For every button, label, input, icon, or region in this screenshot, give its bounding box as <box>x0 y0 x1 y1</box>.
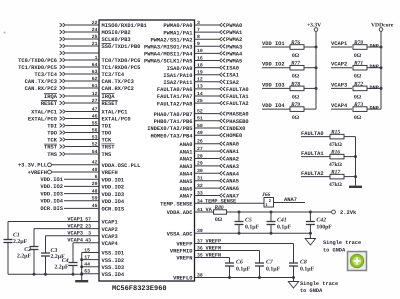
svg-text:FAULTA1: FAULTA1 <box>226 94 249 100</box>
svg-text:ISA0/PA9: ISA0/PA9 <box>167 66 193 72</box>
node ANA7 / pin 33 <box>180 190 239 199</box>
svg-text:TC1/RXD0/PC5: TC1/RXD0/PC5 <box>102 65 141 71</box>
node TC1/RXD0/PC5 / pin 64 <box>18 62 140 71</box>
svg-text:0Ω: 0Ω <box>292 115 300 121</box>
svg-text:2.2µF: 2.2µF <box>13 239 28 245</box>
svg-text:2.2µF: 2.2µF <box>54 264 69 270</box>
wire net TEMP_SENSE / pin 34 <box>160 198 264 207</box>
svg-text:ISA2: ISA2 <box>226 80 239 86</box>
svg-text:14: 14 <box>197 91 203 97</box>
node +VREFH / pin 40 <box>28 167 118 176</box>
svg-text:VDD.IO2: VDD.IO2 <box>40 184 63 190</box>
svg-text:PWMA1/PA1: PWMA1/PA1 <box>163 30 192 36</box>
svg-text:12: 12 <box>197 77 203 83</box>
svg-text:0.1µF: 0.1µF <box>277 224 292 230</box>
wire net VSSA.ADC / pin 39 <box>167 228 312 237</box>
svg-text:36: 36 <box>197 246 203 252</box>
svg-text:VREFN: VREFN <box>206 253 222 259</box>
svg-text:TDI: TDI <box>102 124 112 130</box>
svg-text:EXTAL/PC0: EXTAL/PC0 <box>102 117 131 123</box>
svg-text:CAN.RX/PC2: CAN.RX/PC2 <box>25 86 57 92</box>
node ISA1 / pin 19 <box>163 70 239 79</box>
svg-text:41: 41 <box>197 207 203 213</box>
svg-text:61: 61 <box>92 83 98 89</box>
svg-text:PWMA0: PWMA0 <box>226 23 242 29</box>
svg-text:0Ω: 0Ω <box>354 74 362 80</box>
svg-text:DNP: DNP <box>370 44 379 50</box>
svg-text:R77: R77 <box>290 61 300 67</box>
node TMS / pin 54 <box>47 149 112 158</box>
svg-text:100pF: 100pF <box>316 224 332 230</box>
svg-text:64: 64 <box>92 62 98 68</box>
green marker button <box>348 252 367 271</box>
svg-text:PWMA5/SCLK1/PA5: PWMA5/SCLK1/PA5 <box>144 59 193 65</box>
svg-text:FAULTA1/PA7: FAULTA1/PA7 <box>157 94 193 100</box>
svg-text:ANA6: ANA6 <box>226 186 239 192</box>
svg-text:to GNDA: to GNDA <box>323 248 346 254</box>
node IRQA / pin 12 <box>44 91 115 100</box>
ground GNDA triangle lower <box>288 278 338 295</box>
node INDEX0 / pin 50 <box>147 123 245 132</box>
svg-text:VCAP3: VCAP3 <box>67 231 83 237</box>
svg-text:33: 33 <box>197 190 203 196</box>
svg-text:VREFP: VREFP <box>206 239 222 245</box>
wire net VREFM / pin 36 <box>170 246 260 264</box>
svg-text:TDO: TDO <box>102 131 112 137</box>
svg-text:0Ω: 0Ω <box>292 74 300 80</box>
svg-text:VCAP4: VCAP4 <box>67 238 83 244</box>
node CAN.RX/PC2 / pin 61 <box>25 83 134 92</box>
wire net VCAP1 / pin 57 <box>8 216 118 274</box>
node PWMA1 / pin 7 <box>163 27 242 36</box>
node FAULTA1 / pin 14 <box>157 91 249 100</box>
svg-text:FAULTA2/PA8: FAULTA2/PA8 <box>157 101 193 107</box>
node PHASEA0 / pin 52 <box>154 108 249 117</box>
node PWMA2 / pin 8 <box>150 34 242 43</box>
svg-text:R71: R71 <box>353 61 363 67</box>
svg-text:0Ω: 0Ω <box>354 94 362 100</box>
svg-text:47: 47 <box>92 106 98 112</box>
svg-text:CAN.RX/PC2: CAN.RX/PC2 <box>102 86 134 92</box>
resistor R15 47k <box>329 129 356 148</box>
node FAULTA0 pull <box>301 131 330 137</box>
node ANA7 stub <box>274 197 306 203</box>
node VCAP3 <box>331 82 352 88</box>
svg-text:VSS.IO3: VSS.IO3 <box>102 265 125 271</box>
node RESET / pin 27 <box>41 98 119 107</box>
svg-text:VDD IO3: VDD IO3 <box>262 82 285 88</box>
svg-text:ANA5: ANA5 <box>180 179 193 185</box>
svg-text:VDDcore: VDDcore <box>371 23 394 29</box>
jumper J66 <box>261 192 274 208</box>
capacitor C4 2.2uF <box>54 258 77 270</box>
svg-text:VDD IO1: VDD IO1 <box>262 41 285 47</box>
svg-text:XTAL/PC1: XTAL/PC1 <box>31 109 57 115</box>
IC U1 MC56F8323 body <box>99 20 195 281</box>
wire net VSS.IO4 / pin 63 <box>82 269 125 278</box>
capacitor C7 0.1uF <box>255 260 281 278</box>
svg-text:Single trace: Single trace <box>300 281 338 287</box>
svg-text:31: 31 <box>197 176 203 182</box>
svg-text:2.2µF: 2.2µF <box>17 254 32 260</box>
svg-text:VDD.IO4: VDD.IO4 <box>102 199 125 205</box>
svg-text:VREFM: VREFM <box>206 246 222 252</box>
svg-text:VCAP3: VCAP3 <box>102 234 118 240</box>
svg-text:50: 50 <box>197 123 203 129</box>
svg-text:CAN.TX/PC3: CAN.TX/PC3 <box>25 79 57 85</box>
svg-text:R17: R17 <box>330 169 340 175</box>
svg-text:0Ω: 0Ω <box>292 53 300 59</box>
node PWMA5 / pin 16 <box>144 55 242 64</box>
svg-text:29: 29 <box>197 161 203 167</box>
svg-text:PWMA4/MOSI1/PA4: PWMA4/MOSI1/PA4 <box>144 52 193 58</box>
node VDD.IO3 / pin 48 <box>40 188 124 197</box>
svg-text:VCAP4: VCAP4 <box>331 103 348 109</box>
svg-text:R79: R79 <box>290 102 300 108</box>
svg-text:37: 37 <box>197 239 203 245</box>
svg-text:52: 52 <box>92 141 98 147</box>
svg-text:35: 35 <box>197 253 203 259</box>
svg-text:43: 43 <box>85 238 91 244</box>
wire net VCAP3 / pin 3 <box>46 231 118 275</box>
wire net VREFN / pin 35 <box>176 253 229 264</box>
svg-text:63: 63 <box>92 69 98 75</box>
svg-text:OCR.DIS: OCR.DIS <box>40 206 63 212</box>
svg-text:47kΩ: 47kΩ <box>329 182 343 188</box>
svg-text:SS0/TXD1/PB0: SS0/TXD1/PB0 <box>102 44 141 50</box>
wire net VA / pin 41 <box>167 207 214 216</box>
svg-text:+3.3V: +3.3V <box>307 23 321 29</box>
svg-text:R73: R73 <box>353 102 363 108</box>
svg-text:38: 38 <box>197 272 203 278</box>
svg-text:13: 13 <box>197 84 203 90</box>
ground bar left <box>75 280 88 282</box>
svg-text:6: 6 <box>95 174 98 180</box>
svg-text:PHA0/TA0/PB7: PHA0/TA0/PB7 <box>154 112 193 118</box>
svg-text:16: 16 <box>197 55 203 61</box>
svg-text:VCAP1: VCAP1 <box>67 216 83 222</box>
svg-text:44: 44 <box>84 262 90 268</box>
svg-text:ANA1: ANA1 <box>226 149 239 155</box>
svg-text:ANA2: ANA2 <box>180 157 193 163</box>
svg-text:PHB0/TA1/PB6: PHB0/TA1/PB6 <box>154 119 193 125</box>
svg-text:VREFMID: VREFMID <box>170 249 193 255</box>
svg-text:TC3/TC4: TC3/TC4 <box>34 72 57 78</box>
svg-text:19: 19 <box>197 70 203 76</box>
svg-text:HOME0: HOME0 <box>226 133 242 139</box>
node ANA0 / pin 26 <box>180 139 239 148</box>
svg-text:VREFP: VREFP <box>176 242 192 248</box>
svg-text:ANA7: ANA7 <box>284 197 297 203</box>
svg-text:49: 49 <box>197 130 203 136</box>
svg-text:PWMA3: PWMA3 <box>226 44 242 50</box>
node VDD.IO2 / pin 20 <box>40 181 124 190</box>
svg-text:VSS.IO2: VSS.IO2 <box>102 258 125 264</box>
svg-text:RESET: RESET <box>102 101 119 107</box>
node VCAP4 <box>331 103 352 109</box>
node TRST / pin 52 <box>44 141 115 150</box>
svg-text:40: 40 <box>92 167 98 173</box>
svg-text:ISA1: ISA1 <box>226 73 239 79</box>
svg-text:ISA2/PA11: ISA2/PA11 <box>163 80 192 86</box>
svg-text:VDD.IO3: VDD.IO3 <box>102 192 125 198</box>
node FAULTA2 / pin 25 <box>157 98 249 107</box>
resistor R17 47k <box>329 169 356 188</box>
svg-text:7: 7 <box>197 27 200 33</box>
svg-text:PWMA2: PWMA2 <box>226 37 242 43</box>
svg-text:62: 62 <box>92 76 98 82</box>
svg-text:57: 57 <box>85 216 91 222</box>
svg-text:27: 27 <box>197 146 203 152</box>
wire FAULT rail <box>354 137 357 186</box>
svg-text:VDDA.OSC.PLL: VDDA.OSC.PLL <box>102 163 141 169</box>
svg-text:45: 45 <box>92 203 98 209</box>
svg-text:J66: J66 <box>261 192 271 198</box>
svg-text:PHASEA0: PHASEA0 <box>226 112 249 118</box>
svg-text:0Ω: 0Ω <box>292 94 300 100</box>
power +3.3V symbol <box>307 23 321 110</box>
resistor R79 0 ohm <box>290 102 316 121</box>
svg-text:12: 12 <box>92 91 98 97</box>
node ANA6 / pin 32 <box>180 183 239 192</box>
svg-text:VDD.IO4: VDD.IO4 <box>40 199 63 205</box>
capacitor C1 2.2uF <box>4 233 28 246</box>
capacitor C42 100pF <box>306 212 332 233</box>
svg-text:VSS.IO4: VSS.IO4 <box>102 272 125 278</box>
svg-text:FAULTA0: FAULTA0 <box>226 87 249 93</box>
resistor R77 0 ohm <box>290 61 316 80</box>
svg-text:XTAL/PC1: XTAL/PC1 <box>102 110 128 116</box>
svg-text:VDD IO2: VDD IO2 <box>262 62 285 68</box>
resistor R73 0 ohm DNP <box>353 102 381 121</box>
svg-text:VCAP2: VCAP2 <box>331 62 347 68</box>
svg-text:TMS: TMS <box>102 152 112 158</box>
node TC3/TC4 / pin 63 <box>34 69 125 78</box>
svg-text:30: 30 <box>197 168 203 174</box>
svg-text:R70: R70 <box>353 40 363 46</box>
svg-text:26: 26 <box>197 139 203 145</box>
svg-text:PWMA2/SS1/PA2: PWMA2/SS1/PA2 <box>150 37 192 43</box>
node +3.3V.PLL / pin 42 <box>18 160 140 169</box>
svg-text:0.1µF: 0.1µF <box>236 266 251 272</box>
svg-text:C7: C7 <box>266 260 274 266</box>
svg-text:C41: C41 <box>277 218 287 224</box>
wire net VREFLO / pin 38 <box>173 272 295 281</box>
node VCAP1 <box>331 41 352 47</box>
svg-text:DNP: DNP <box>370 106 379 112</box>
svg-text:3: 3 <box>197 20 200 26</box>
capacitor C5 0.1µF <box>235 212 260 233</box>
svg-text:23: 23 <box>85 224 91 230</box>
svg-text:TCK: TCK <box>102 138 112 144</box>
node PWMA0 / pin 3 <box>163 20 242 29</box>
svg-text:C8: C8 <box>300 260 307 266</box>
svg-text:ANA0: ANA0 <box>226 142 239 148</box>
node PHASEB0 / pin 51 <box>154 116 249 125</box>
svg-text:C2: C2 <box>24 247 31 253</box>
svg-text:TDO: TDO <box>47 130 57 136</box>
svg-text:CAN.TX/PC3: CAN.TX/PC3 <box>102 79 134 85</box>
power VDDcore symbol <box>371 23 394 110</box>
svg-text:0Ω: 0Ω <box>354 53 362 59</box>
svg-text:VDD.IO2: VDD.IO2 <box>102 185 125 191</box>
svg-text:ANA4: ANA4 <box>180 172 194 178</box>
svg-text:10: 10 <box>197 48 203 54</box>
svg-text:ANA2: ANA2 <box>226 157 239 163</box>
svg-text:25: 25 <box>197 98 203 104</box>
capacitor C3 2.2uF <box>41 248 65 260</box>
node PWMA3 / pin 9 <box>144 41 242 50</box>
svg-text:47kΩ: 47kΩ <box>329 142 343 148</box>
svg-text:VREFLO: VREFLO <box>173 276 193 282</box>
svg-text:PWMA1: PWMA1 <box>226 30 242 36</box>
node ANA2 / pin 28 <box>180 153 239 162</box>
svg-text:15: 15 <box>84 247 90 253</box>
ground bar FAULT <box>349 186 362 188</box>
svg-text:48: 48 <box>92 188 98 194</box>
resistor R71 0 ohm DNP <box>353 61 381 80</box>
svg-text:C42: C42 <box>316 218 326 224</box>
svg-text:VDD.IO1: VDD.IO1 <box>40 177 63 183</box>
resistor R72 0 ohm DNP <box>353 81 381 100</box>
svg-text:TC3/TC4: TC3/TC4 <box>102 72 125 78</box>
svg-text:46: 46 <box>92 113 98 119</box>
node ANA3 / pin 29 <box>180 161 239 170</box>
node VDD IO1 <box>262 41 290 47</box>
wire pin 21 SS0/TXD1/PB0 <box>60 41 141 50</box>
svg-text:8: 8 <box>197 34 200 40</box>
U1 part number label MC56F8323E960 <box>112 285 167 293</box>
svg-text:0.1µF: 0.1µF <box>266 266 281 272</box>
svg-text:TC0/TXD0/PC6: TC0/TXD0/PC6 <box>102 58 141 64</box>
resistor R16 47k <box>329 149 356 168</box>
svg-text:to GNDA: to GNDA <box>300 288 323 294</box>
wire net VSS.IO2 / pin 17 <box>82 255 124 264</box>
svg-text:VSSA.ADC: VSSA.ADC <box>167 232 194 238</box>
svg-text:TMS: TMS <box>47 152 57 158</box>
svg-text:3: 3 <box>88 231 91 237</box>
wire net VCAP2 / pin 23 <box>34 224 118 275</box>
svg-text:20: 20 <box>92 181 98 187</box>
node EXTAL/PC0 / pin 46 <box>28 113 131 122</box>
wire net VREFP / pin 37 <box>176 239 293 264</box>
svg-text:TRST: TRST <box>44 144 58 150</box>
svg-text:C1: C1 <box>13 233 20 239</box>
node FAULTA0 / pin 13 <box>157 84 249 93</box>
capacitor C6 0.1uF <box>225 260 251 278</box>
svg-text:17: 17 <box>84 255 90 261</box>
svg-text:VREFH: VREFH <box>102 170 118 176</box>
svg-text:R16: R16 <box>330 149 340 155</box>
svg-text:VDD.IO1: VDD.IO1 <box>102 177 125 183</box>
node ISA2 / pin 12 <box>163 77 239 86</box>
svg-text:PWMA0/PA0: PWMA0/PA0 <box>163 23 192 29</box>
node VDD.IO4 / pin 59 <box>40 196 125 205</box>
svg-text:VCAP1: VCAP1 <box>331 41 347 47</box>
svg-text:OCR.DIS: OCR.DIS <box>102 207 125 213</box>
wire VA rail to node 2.2Vk <box>227 210 357 216</box>
svg-text:INDEX0/TA2/PB5: INDEX0/TA2/PB5 <box>147 126 192 132</box>
svg-text:FAULTA0: FAULTA0 <box>301 131 324 137</box>
svg-text:ANA3: ANA3 <box>180 164 193 170</box>
svg-text:47kΩ: 47kΩ <box>329 162 343 168</box>
svg-text:TDI: TDI <box>47 123 57 129</box>
svg-text:ISA1/PA10: ISA1/PA10 <box>163 73 192 79</box>
node FAULTA1 pull <box>301 151 330 157</box>
svg-text:VREFN: VREFN <box>176 256 192 262</box>
svg-text:SCLK0/PB3: SCLK0/PB3 <box>102 37 131 43</box>
svg-text:R76: R76 <box>290 40 300 46</box>
wire VCAP bottom rail <box>8 273 83 276</box>
svg-text:0.1µF: 0.1µF <box>245 224 260 230</box>
node TDO / pin 56 <box>47 127 112 136</box>
svg-text:56: 56 <box>92 127 98 133</box>
svg-text:34: 34 <box>197 198 203 204</box>
node FAULTA2 pull <box>301 171 330 177</box>
svg-text:IRQA: IRQA <box>44 94 58 100</box>
svg-text:22: 22 <box>92 20 98 26</box>
svg-text:32: 32 <box>197 183 203 189</box>
ground GNDA triangle upper <box>305 233 361 253</box>
svg-text:PWMA5: PWMA5 <box>226 59 242 65</box>
svg-text:MC56F8323E960: MC56F8323E960 <box>112 285 167 293</box>
wire net VSS.IO1 / pin 15 <box>82 247 124 256</box>
svg-text:ANA5: ANA5 <box>226 179 239 185</box>
svg-text:FAULTA1: FAULTA1 <box>301 151 324 157</box>
svg-text:0Ω: 0Ω <box>354 115 362 121</box>
svg-text:DNP: DNP <box>370 85 379 91</box>
svg-text:VA: VA <box>206 207 213 213</box>
node HOME0 / pin 49 <box>150 130 242 139</box>
svg-text:C6: C6 <box>236 260 243 266</box>
svg-text:VCAP1: VCAP1 <box>102 220 118 226</box>
capacitor C41 0.1µF <box>267 212 292 233</box>
svg-text:28: 28 <box>197 153 203 159</box>
svg-text:PWMA3/MISO1/PA3: PWMA3/MISO1/PA3 <box>144 45 193 51</box>
svg-text:21: 21 <box>92 41 98 47</box>
svg-text:VDD IO4: VDD IO4 <box>262 103 285 109</box>
wire VSS junction vertical <box>80 253 83 281</box>
node CAN.TX/PC3 / pin 62 <box>25 76 134 85</box>
svg-text:VCAP2: VCAP2 <box>102 227 118 233</box>
svg-text:+VREFH: +VREFH <box>28 170 47 176</box>
svg-text:39: 39 <box>197 228 203 234</box>
svg-text:RESET: RESET <box>41 101 58 107</box>
svg-text:FAULTA2: FAULTA2 <box>301 171 324 177</box>
svg-text:53: 53 <box>92 134 98 140</box>
svg-text:51: 51 <box>197 116 203 122</box>
svg-text:27: 27 <box>92 98 98 104</box>
svg-text:TEMP_SENSE: TEMP_SENSE <box>205 199 236 205</box>
node OCR.DIS / pin 45 <box>40 203 125 212</box>
svg-text:PWMA4: PWMA4 <box>226 51 243 57</box>
svg-text:0.1µF: 0.1µF <box>300 266 315 272</box>
svg-text:PHASEB0: PHASEB0 <box>226 119 249 125</box>
svg-text:52: 52 <box>197 108 203 114</box>
svg-text:24: 24 <box>92 27 98 33</box>
svg-text:63: 63 <box>84 269 90 275</box>
node TDI / pin 55 <box>47 120 111 129</box>
svg-text:MOSI0/PB2: MOSI0/PB2 <box>102 30 131 36</box>
svg-text:VDD.IO3: VDD.IO3 <box>40 191 63 197</box>
node ISA0 / pin 18 <box>167 62 239 71</box>
node XTAL/PC1 / pin 47 <box>31 106 127 115</box>
svg-text:Single trace: Single trace <box>323 240 361 246</box>
svg-text:R80: R80 <box>214 205 224 211</box>
svg-text:9: 9 <box>197 41 200 47</box>
svg-text:R72: R72 <box>353 81 363 87</box>
svg-text:1: 1 <box>95 55 98 61</box>
